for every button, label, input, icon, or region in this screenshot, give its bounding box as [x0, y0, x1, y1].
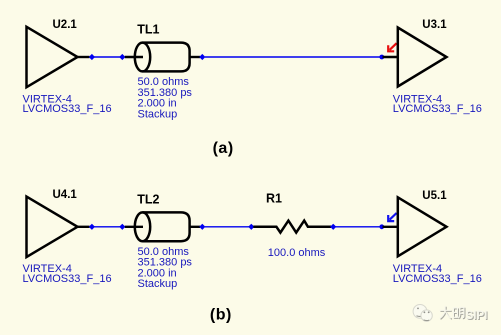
- node diamond at R1 left: [248, 224, 254, 230]
- watermark text: [440, 306, 489, 323]
- svg-text:(a): (a): [213, 140, 234, 157]
- svg-text:LVCMOS33_F_16: LVCMOS33_F_16: [23, 103, 112, 115]
- U3.1 value labels: [393, 93, 482, 115]
- svg-text:LVCMOS33_F_16: LVCMOS33_F_16: [393, 103, 482, 115]
- probe arrow at U3.1 input: [388, 43, 396, 51]
- U2.1 output pin stub: [76, 56, 90, 58]
- U5.1 input pin stub: [383, 226, 399, 228]
- svg-text:LVCMOS33_F_16: LVCMOS33_F_16: [393, 273, 482, 285]
- svg-text:U3.1: U3.1: [422, 19, 447, 31]
- TL2 input lead: [125, 226, 143, 228]
- wire TL2 to R1: [205, 226, 250, 228]
- buffer U4.1: [27, 197, 78, 257]
- svg-text:TL2: TL2: [137, 193, 159, 207]
- wire R1 to U5.1: [336, 226, 381, 228]
- svg-text:U2.1: U2.1: [53, 19, 78, 31]
- transmission line TL1: [135, 43, 190, 72]
- svg-text:U4.1: U4.1: [53, 189, 78, 201]
- TL1 value labels: [138, 76, 193, 120]
- transmission line TL2: [135, 212, 190, 241]
- svg-text:100.0 ohms: 100.0 ohms: [268, 247, 326, 259]
- node diamond at TL1 input: [119, 54, 125, 60]
- U4.1 value labels: [23, 263, 112, 285]
- junction dot at U3.1 input: [379, 55, 384, 60]
- wire U2.1 to TL1: [94, 56, 121, 58]
- svg-text:(b): (b): [210, 306, 232, 323]
- U2.1 value labels: [23, 93, 112, 115]
- svg-text:U5.1: U5.1: [422, 190, 447, 202]
- svg-text:R1: R1: [266, 192, 282, 206]
- U4.1 output pin stub: [76, 226, 90, 228]
- node diamond at TL2 output: [199, 224, 205, 230]
- probe arrow at U5.1 input: [388, 213, 396, 221]
- node diamond at TL2 input: [119, 224, 125, 230]
- watermark logo: [413, 305, 432, 322]
- wire TL1 to U3.1: [205, 56, 381, 58]
- resistor R1: [253, 221, 331, 233]
- svg-text:TL1: TL1: [137, 23, 159, 37]
- node diamond at U4.1 output: [89, 224, 95, 230]
- svg-text:SIPI: SIPI: [466, 310, 488, 322]
- wire U4.1 to TL2: [94, 226, 121, 228]
- TL2 output lead: [190, 226, 201, 228]
- node diamond at U2.1 output: [89, 54, 95, 60]
- TL1 input lead: [125, 56, 143, 58]
- U5.1 value labels: [393, 263, 482, 285]
- junction dot at U5.1 input: [379, 224, 384, 229]
- TL1 output lead: [190, 56, 201, 58]
- buffer U2.1: [27, 27, 78, 87]
- svg-text:LVCMOS33_F_16: LVCMOS33_F_16: [23, 273, 112, 285]
- svg-text:Stackup: Stackup: [138, 108, 178, 120]
- U3.1 input pin stub: [383, 56, 399, 58]
- svg-text:Stackup: Stackup: [138, 278, 178, 290]
- receiver U5.1: [398, 197, 447, 256]
- receiver U3.1: [398, 28, 447, 87]
- TL2 value labels: [138, 246, 193, 290]
- node diamond at R1 right: [330, 224, 336, 230]
- node diamond at TL1 output: [199, 54, 205, 60]
